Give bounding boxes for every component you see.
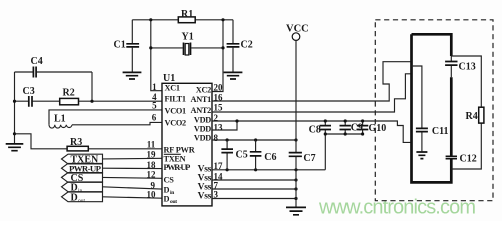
svg-text:G10: G10 <box>369 123 387 134</box>
svg-text:U1: U1 <box>163 73 175 84</box>
svg-text:Y1: Y1 <box>182 32 194 43</box>
svg-text:C7: C7 <box>303 153 315 164</box>
svg-text:C11: C11 <box>432 126 449 137</box>
svg-text:D: D <box>164 194 170 203</box>
svg-text:VDD: VDD <box>194 125 211 134</box>
svg-text:13: 13 <box>214 122 224 132</box>
svg-text:10: 10 <box>147 189 157 199</box>
svg-text:R2: R2 <box>63 88 75 99</box>
svg-text:PWR-UP: PWR-UP <box>164 163 191 172</box>
svg-text:VDD: VDD <box>194 116 211 125</box>
svg-text:5: 5 <box>152 101 157 111</box>
svg-text:Vss: Vss <box>198 191 212 201</box>
svg-text:18: 18 <box>147 160 157 170</box>
svg-text:C9: C9 <box>351 122 363 133</box>
svg-text:C1: C1 <box>114 40 126 51</box>
svg-text:C4: C4 <box>31 56 43 67</box>
svg-text:ANT1: ANT1 <box>191 95 212 104</box>
svg-text:www.cntronics.com: www.cntronics.com <box>318 197 476 219</box>
svg-text:C3: C3 <box>23 86 35 97</box>
svg-text:in: in <box>170 190 174 196</box>
svg-text:C8: C8 <box>309 124 321 135</box>
svg-text:C12: C12 <box>460 154 477 165</box>
svg-text:CS: CS <box>164 175 175 184</box>
svg-text:C2: C2 <box>241 40 253 51</box>
svg-text:out: out <box>170 199 177 205</box>
svg-text:in: in <box>78 188 83 194</box>
svg-text:C6: C6 <box>264 152 276 163</box>
svg-text:XC1: XC1 <box>165 84 180 93</box>
svg-text:6: 6 <box>152 113 157 123</box>
svg-text:RF PWR: RF PWR <box>164 146 196 155</box>
svg-text:XC2: XC2 <box>196 86 211 95</box>
svg-text:PWR-UP: PWR-UP <box>69 164 102 174</box>
svg-text:R1: R1 <box>181 9 193 20</box>
svg-text:L1: L1 <box>54 114 66 125</box>
svg-text:20: 20 <box>214 83 224 93</box>
svg-text:1: 1 <box>152 82 157 92</box>
svg-text:D: D <box>71 192 78 203</box>
svg-text:19: 19 <box>147 150 157 160</box>
svg-text:VCO2: VCO2 <box>165 119 187 128</box>
svg-text:R3: R3 <box>70 137 82 148</box>
svg-text:12: 12 <box>147 170 157 180</box>
svg-text:C5: C5 <box>236 150 248 161</box>
svg-text:VCO1: VCO1 <box>165 106 187 115</box>
svg-text:TXEN: TXEN <box>164 154 186 163</box>
svg-text:D: D <box>164 186 170 195</box>
svg-text:C13: C13 <box>459 62 476 73</box>
svg-text:8: 8 <box>214 133 219 143</box>
svg-text:out: out <box>78 198 86 204</box>
svg-text:R4: R4 <box>466 111 478 122</box>
svg-text:11: 11 <box>147 140 156 150</box>
svg-text:15: 15 <box>214 102 224 112</box>
svg-text:FILT1: FILT1 <box>165 95 186 104</box>
svg-text:VDD: VDD <box>194 134 211 143</box>
svg-text:ANT2: ANT2 <box>191 106 212 115</box>
